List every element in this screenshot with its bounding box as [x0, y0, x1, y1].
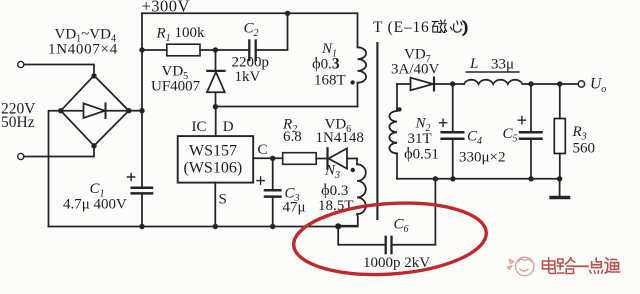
svg-text:): ): [463, 19, 468, 36]
diode VD6 cathode bar: [326, 148, 328, 168]
svg-text:560: 560: [573, 141, 596, 157]
svg-text:31T: 31T: [408, 131, 432, 147]
node dot top rail at C2: [285, 11, 290, 16]
diode VD7 triangle: [411, 78, 434, 91]
svg-text:C: C: [258, 142, 268, 158]
inductor L winding: [464, 80, 522, 84]
N3 phase dot: [351, 168, 355, 172]
transformer core: [376, 43, 378, 219]
resistor R3: [559, 84, 561, 119]
C5 plus sign: [518, 117, 525, 124]
svg-text:100k: 100k: [175, 25, 206, 41]
watermark text (hand-drawn 电路一点通 glyphs): [543, 258, 620, 274]
node dot ground rail at C1: [139, 224, 144, 229]
input terminal 1: [18, 61, 24, 67]
output terminal Uo: [578, 81, 584, 87]
svg-text:C5: C5: [503, 126, 518, 145]
capacitor C4 plates: [442, 131, 464, 134]
node dot VD5/D-pin junction: [213, 104, 218, 109]
wire: C4 branch vertical: [452, 84, 454, 132]
capacitor C5 plates: [520, 131, 542, 134]
IC U1 WS157 box: [178, 136, 254, 183]
diode VD5: [215, 50, 217, 71]
wire: DC minus from bridge left node down to ground rail: [49, 111, 61, 227]
svg-text:1000p 2kV: 1000p 2kV: [363, 255, 430, 271]
wire: N2 top to VD7 anode: [397, 83, 411, 85]
node dot bridge top: [91, 73, 96, 78]
node dot at R3 top: [557, 81, 562, 86]
wire: S pin to ground rail: [214, 183, 216, 227]
svg-text:50Hz: 50Hz: [1, 114, 35, 131]
label cixin (hand-drawn 磁心 glyphs): [432, 19, 467, 36]
wire: R1 branch from positive rail: [142, 49, 167, 51]
node dot bridge left: [58, 108, 63, 113]
node dot R1/C2/VD5 junction: [213, 47, 218, 52]
wire: bottom secondary rail: [397, 178, 560, 180]
svg-text:D: D: [223, 119, 234, 135]
svg-text:UF4007: UF4007: [151, 79, 201, 95]
svg-text:C6: C6: [394, 217, 409, 236]
node dot rail at C4: [450, 176, 455, 181]
wire: N1 bottom horizontal: [215, 106, 357, 108]
wire: C pin out of IC: [253, 157, 283, 159]
svg-text:IC: IC: [192, 119, 207, 135]
wire: C2 right plate up to top rail: [256, 13, 288, 50]
capacitor C6 plates: [385, 237, 387, 253]
C1 plus sign: [128, 173, 135, 180]
diode VD6 triangle: [329, 148, 348, 168]
svg-text:6.8: 6.8: [283, 129, 302, 145]
wire: D pin into IC: [215, 107, 217, 137]
svg-text:4.7μ 400V: 4.7μ 400V: [63, 197, 127, 213]
wire: bridge right node to positive rail: [129, 110, 142, 112]
svg-text:L: L: [469, 56, 478, 72]
wire: C3 bottom to ground rail: [272, 197, 274, 227]
svg-text:N3: N3: [324, 163, 340, 182]
wire: R1 to snubber junction: [200, 49, 249, 51]
glyph tong: [605, 258, 619, 273]
N2 phase dot: [397, 107, 401, 111]
svg-text:Uo: Uo: [590, 76, 606, 96]
winding N2: [396, 84, 398, 111]
C4 plus sign: [440, 119, 447, 126]
svg-text:C2: C2: [244, 21, 259, 40]
phi stems to mimic straight-stroked phi: [316, 58, 408, 189]
wire: left vertical positive rail upper: [141, 13, 143, 187]
node dot ground rail at N3/C6: [335, 223, 341, 229]
node dot rail at R1: [139, 47, 144, 52]
winding N3: [356, 159, 358, 165]
wire: top +300V rail: [142, 12, 358, 14]
wire: R2 to VD6: [316, 158, 327, 160]
svg-text:33μ: 33μ: [491, 57, 514, 73]
svg-text:3A/40V: 3A/40V: [391, 62, 440, 78]
svg-text:(WS106): (WS106): [184, 159, 243, 176]
node dot at C5 top: [528, 81, 533, 86]
svg-text:47μ: 47μ: [283, 200, 306, 216]
wire: VD6 to N3 top: [347, 158, 357, 160]
node dot bridge right: [126, 108, 131, 113]
node dot bridge bottom: [91, 143, 96, 148]
svg-text:C4: C4: [467, 129, 482, 148]
node dot rail at C6: [433, 176, 438, 181]
node dot ground rail at S pin: [213, 224, 218, 229]
wire: VD7 to L: [434, 83, 464, 85]
glyph lu: [557, 258, 575, 274]
input terminal 2: [18, 153, 24, 159]
wire: bottom primary ground rail: [49, 226, 358, 228]
svg-text:WS157: WS157: [189, 142, 237, 159]
node dot rail at C5: [528, 176, 533, 181]
red circle annotation around C6: [291, 197, 488, 280]
capacitor C2 plates: [248, 41, 250, 61]
wire: C6 branch from primary ground junction: [338, 226, 385, 245]
ground symbol: [559, 179, 561, 197]
watermark logo icon: [508, 257, 534, 275]
svg-text:1kV: 1kV: [235, 69, 261, 85]
wire: C3 branch down: [272, 158, 274, 189]
winding N1: [357, 13, 359, 47]
resistor R2: [283, 153, 317, 165]
svg-text:+300V: +300V: [142, 0, 190, 16]
svg-text:330μ×2: 330μ×2: [459, 150, 506, 166]
svg-text:φ0.51: φ0.51: [404, 147, 439, 163]
C3 plus sign: [257, 177, 264, 184]
svg-text:1N4007×4: 1N4007×4: [48, 42, 118, 58]
capacitor C1 plates: [132, 187, 152, 190]
N1 phase dot: [350, 80, 354, 84]
wire: C5 branch vertical: [530, 84, 532, 132]
svg-text:S: S: [219, 192, 227, 208]
node dot rail at R3/ground: [557, 176, 562, 181]
node dot rail at bridge level: [139, 108, 144, 113]
wire: left vertical positive rail lower (C1 to ground rail): [141, 194, 143, 227]
svg-text:T (E–16: T (E–16: [373, 19, 430, 36]
resistor R1: [167, 44, 200, 56]
node dot C pin junction: [270, 156, 275, 161]
wire: input terminal 1 to bridge top node: [24, 65, 94, 76]
diode VD7 cathode bar: [433, 78, 435, 91]
wire: L to output terminal: [522, 83, 578, 85]
svg-text:1N4148: 1N4148: [316, 130, 364, 146]
bridge internal diode: [61, 110, 84, 112]
bridge rectifier VD1-VD4 diamond: [61, 76, 129, 146]
wire: input terminal 2 to bridge bottom node: [24, 146, 94, 157]
wire: C6 to secondary rail: [392, 179, 436, 245]
svg-text:168T: 168T: [314, 73, 346, 89]
inductor L core bar: [466, 71, 519, 73]
node dot VD7/C4 junction: [450, 81, 455, 86]
glyph dian2: [590, 258, 603, 273]
svg-text:R1: R1: [156, 26, 171, 45]
capacitor C3 plates: [265, 189, 280, 192]
glyph dian: [543, 258, 556, 274]
glyph yi: [574, 265, 588, 267]
node dot ground rail at C3: [270, 224, 275, 229]
